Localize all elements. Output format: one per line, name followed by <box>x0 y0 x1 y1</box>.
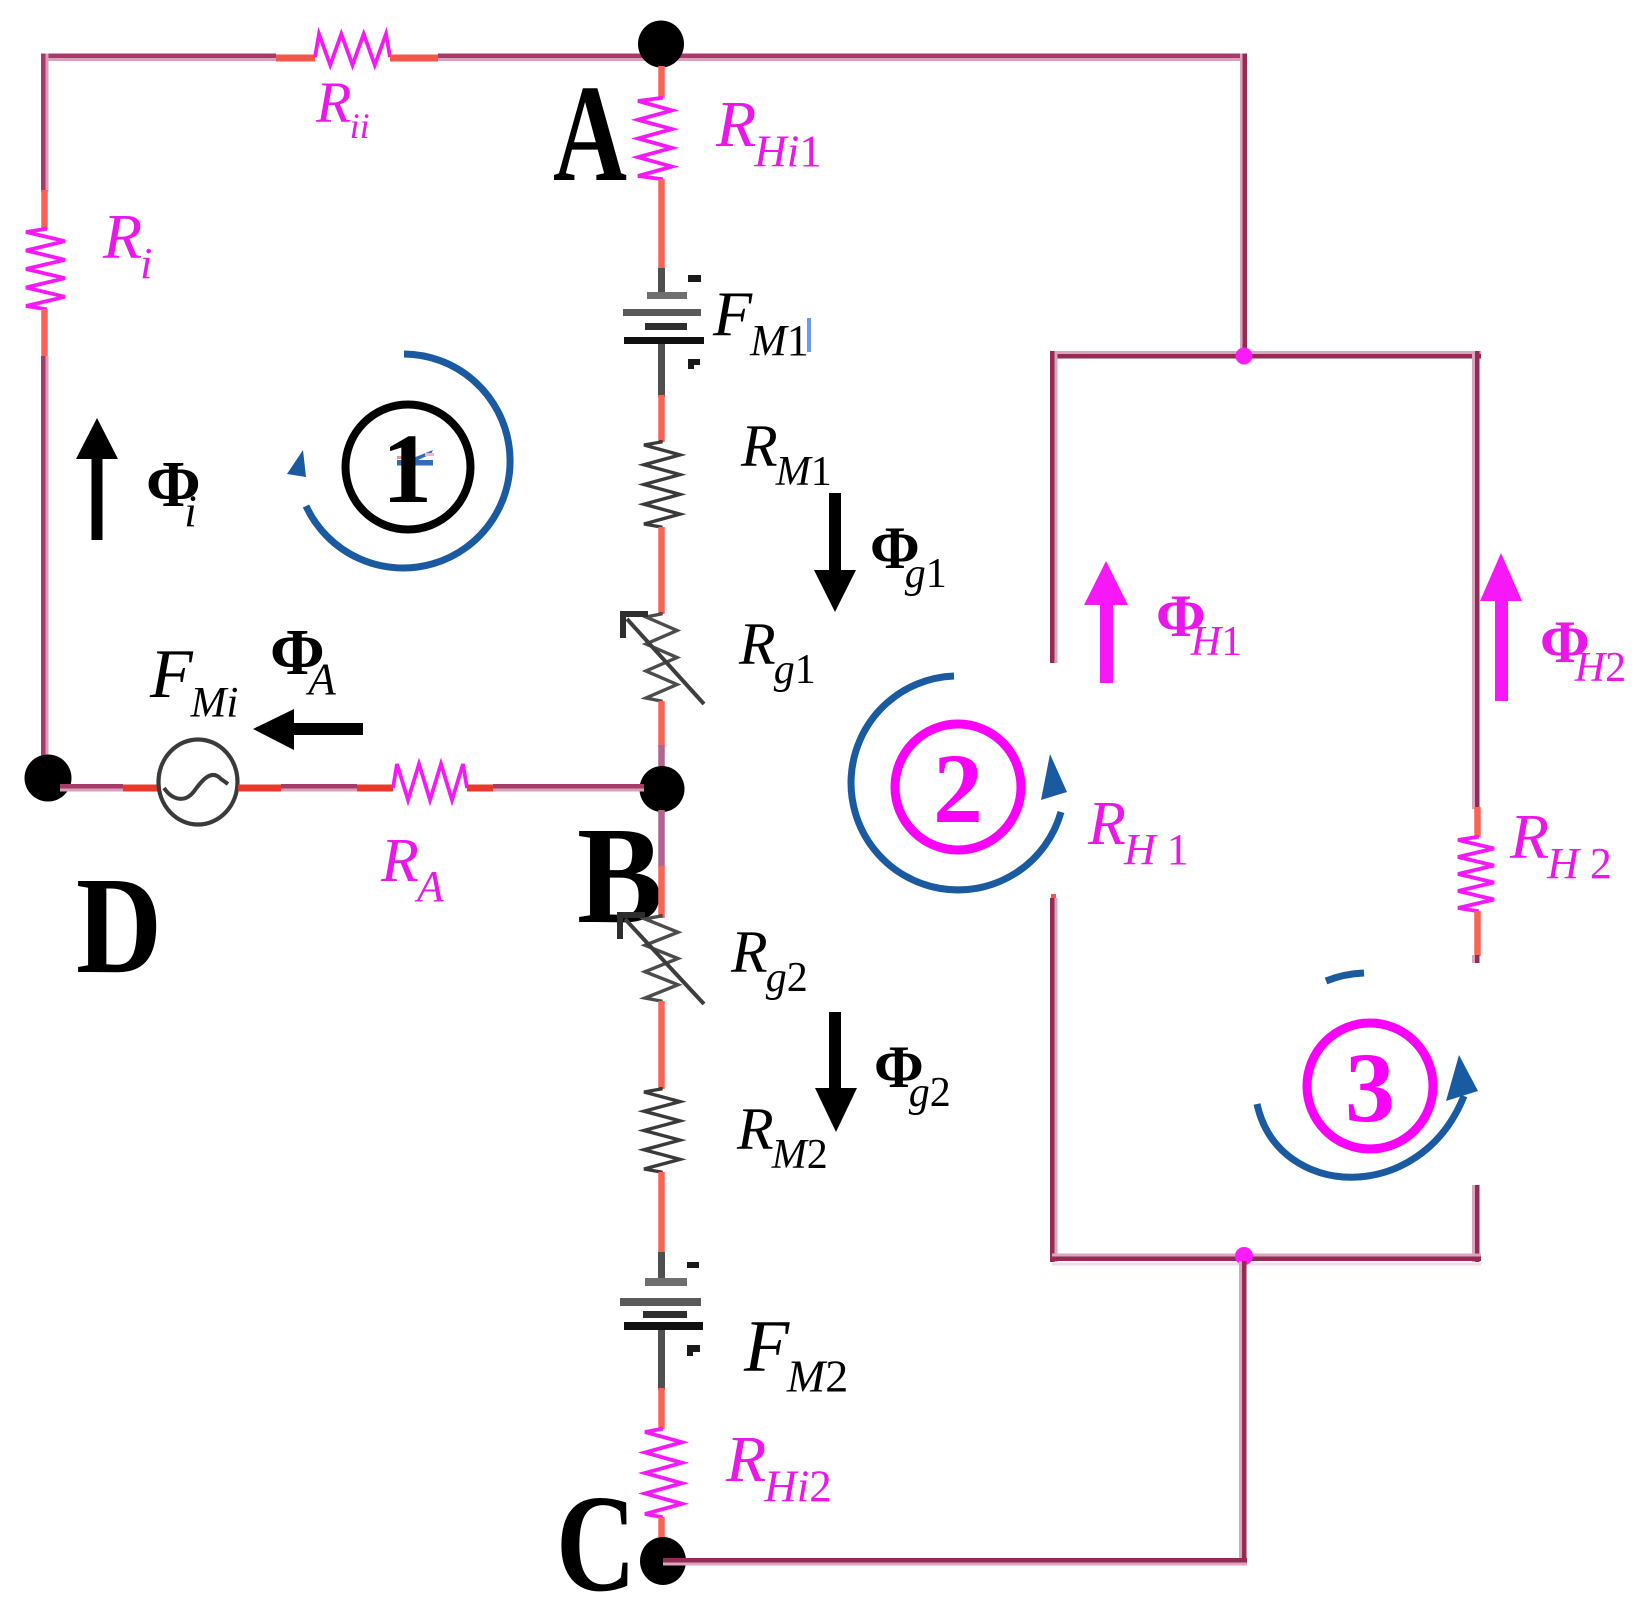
loop 1 arc arrowhead <box>287 450 306 477</box>
svg-text:g2: g2 <box>909 1070 951 1116</box>
wire inner rect top <box>1052 351 1481 354</box>
svg-text:Hi2: Hi2 <box>763 1461 832 1511</box>
resistor R_M2 <box>644 1087 680 1174</box>
wire R_A to node B <box>467 785 493 792</box>
resistor R_H2 <box>1458 835 1494 913</box>
wire F_M2 to R_Hi2 <box>658 1388 665 1429</box>
svg-text:A: A <box>305 654 336 704</box>
wire bottom horizontal C to drop <box>663 1558 1247 1563</box>
wire salmon above R_H2 <box>1474 807 1481 837</box>
loop 2 circle <box>895 724 1021 850</box>
svg-text:R: R <box>730 919 768 985</box>
svg-text:Hi1: Hi1 <box>753 126 822 176</box>
svg-text:R: R <box>740 413 778 479</box>
wire R_M1 to R_g1 <box>658 527 665 614</box>
resistor R_Hi1 <box>638 96 672 181</box>
svg-text:F: F <box>743 1306 790 1388</box>
junction dot top <box>1236 348 1253 365</box>
junction dot bottom <box>1235 1247 1253 1265</box>
variable resistor R_g2 <box>645 914 678 1003</box>
svg-text:F: F <box>712 278 753 349</box>
wire inner rect right lower <box>1472 1185 1475 1262</box>
svg-text:R: R <box>102 201 142 272</box>
svg-text:H 2: H 2 <box>1546 839 1612 888</box>
variable resistor R_g1 <box>646 612 677 703</box>
svg-text:D: D <box>76 849 162 1003</box>
svg-text:M1: M1 <box>749 316 809 365</box>
flux arrow Phi_i <box>76 418 118 540</box>
battery F_M1 <box>623 268 704 397</box>
wire A to R_Hi1 <box>658 66 665 98</box>
svg-text:R: R <box>380 827 419 895</box>
blue cursor bar <box>807 318 811 352</box>
AC source F_Mi <box>159 740 238 825</box>
loop 3 arc <box>1257 1096 1464 1177</box>
svg-text:1: 1 <box>382 413 432 524</box>
svg-text:g1: g1 <box>774 647 816 693</box>
wire R_g1 to node B <box>658 701 665 747</box>
wire R_M2 to F_M2 <box>658 1172 665 1254</box>
svg-text:Mi: Mi <box>190 679 239 726</box>
wire inner rect left lower <box>1051 894 1056 899</box>
wire red segment right of Rii <box>390 55 438 62</box>
flux arrow Phi_A <box>253 709 363 750</box>
svg-text:R: R <box>736 1096 774 1162</box>
flux arrow Phi_g2 <box>815 1012 857 1132</box>
wire R_Hi1 to F_M1 <box>658 179 665 269</box>
node D <box>25 755 72 802</box>
svg-text:H1: H1 <box>1190 619 1242 665</box>
node A <box>638 21 684 68</box>
wire R_g2 to R_M2 <box>658 1001 665 1089</box>
wire R_Hi2 to node C <box>658 1517 665 1542</box>
loop 3 circle <box>1307 1023 1433 1149</box>
wire inner rect bottom <box>1052 1254 1481 1257</box>
wire top-right vertical x=1243 <box>1240 54 1243 357</box>
resistor R_i <box>26 227 65 311</box>
battery F_M2 <box>620 1252 703 1390</box>
svg-text:R: R <box>315 70 351 135</box>
wire inner rect left upper <box>1050 351 1055 663</box>
svg-text:R: R <box>738 611 776 677</box>
svg-text:H 1: H 1 <box>1123 825 1189 874</box>
svg-text:g2: g2 <box>766 955 808 1001</box>
wire D to source <box>60 784 123 789</box>
wire top-left horizontal segment <box>41 54 276 59</box>
svg-text:A: A <box>414 862 445 911</box>
wire red segment left of Rii <box>276 55 315 62</box>
wire salmon above R_i <box>41 190 48 229</box>
wire drop from junction to bottom <box>1239 1261 1242 1566</box>
svg-text:R: R <box>715 88 756 161</box>
wire crimson stub below R_H2 <box>1472 955 1475 963</box>
loop 2 arc arrowhead <box>1041 754 1067 800</box>
svg-text:A: A <box>553 57 627 211</box>
loop 1 small mark <box>397 450 434 466</box>
loop 1 arc <box>306 354 510 568</box>
node C <box>640 1537 686 1585</box>
svg-text:3: 3 <box>1345 1032 1395 1143</box>
wire left vertical upper <box>41 54 46 193</box>
wire F_M1 to R_M1 <box>658 395 665 442</box>
svg-text:C: C <box>556 1467 636 1611</box>
wire inner rect right upper <box>1472 351 1475 809</box>
flux arrow Phi_H1 <box>1084 561 1128 683</box>
loop 2 arc <box>851 676 1061 890</box>
wire mauve above node B <box>658 745 665 768</box>
svg-text:ii: ii <box>350 106 370 146</box>
wire top horizontal to right corner <box>438 54 1247 59</box>
svg-text:H2: H2 <box>1574 645 1626 691</box>
svg-text:R: R <box>1087 790 1126 858</box>
svg-text:M2: M2 <box>786 1351 848 1402</box>
svg-text:i: i <box>184 486 197 536</box>
wire salmon above R_g2 <box>658 866 665 918</box>
svg-text:R: R <box>725 1423 766 1496</box>
svg-text:2: 2 <box>933 733 983 844</box>
resistor R_Hi2 <box>645 1427 682 1519</box>
resistor R_ii <box>315 34 390 65</box>
wire salmon below R_H2 <box>1474 911 1481 956</box>
flux arrow Phi_H2 <box>1480 553 1522 701</box>
svg-text:M1: M1 <box>775 449 832 495</box>
wire salmon below R_i <box>41 309 48 358</box>
resistor R_M1 <box>644 440 680 529</box>
wire left vertical lower <box>41 356 46 768</box>
svg-text:R: R <box>1509 801 1549 872</box>
wire mauve below node B <box>658 810 665 868</box>
svg-text:i: i <box>140 239 152 288</box>
svg-text:F: F <box>149 636 194 713</box>
loop 3 arc top fragment <box>1326 973 1364 981</box>
resistor R_A <box>393 764 467 800</box>
loop 1 circle <box>346 405 471 530</box>
loop 3 arc arrowhead <box>1446 1055 1478 1101</box>
flux arrow Phi_g1 <box>814 493 856 612</box>
svg-text:g1: g1 <box>905 551 947 597</box>
node B <box>640 766 685 812</box>
svg-text:M2: M2 <box>771 1132 828 1178</box>
wire source to R_A <box>238 785 281 792</box>
